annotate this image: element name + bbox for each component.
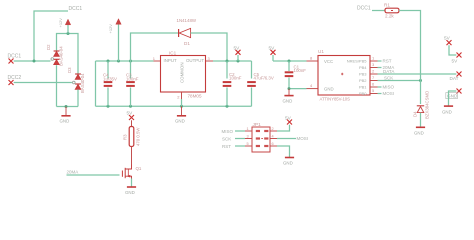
svg-text:5: 5 — [247, 142, 249, 146]
capacitor C3 — [126, 61, 139, 106]
wire JP1 MOSI — [277, 136, 308, 141]
resistor R1 — [384, 3, 399, 19]
svg-text:PB0: PB0 — [359, 91, 367, 96]
wire +12V bridge rail — [57, 32, 79, 74]
wire GND main rail — [96, 105, 252, 108]
svg-text:5V: 5V — [269, 46, 276, 51]
regulator IC1 78M05 — [153, 51, 211, 100]
resistor R3 — [123, 127, 141, 147]
pad GND right — [446, 89, 462, 99]
svg-text:BZX384CSMD: BZX384CSMD — [425, 91, 430, 119]
svg-text:IC1: IC1 — [169, 51, 177, 56]
wire MOSI — [378, 91, 395, 96]
wire D3 bottom — [77, 90, 79, 107]
svg-text:20MA: 20MA — [67, 170, 79, 175]
diode D3 (dual BAS40-04) — [67, 67, 85, 93]
svg-text:DCC2: DCC2 — [8, 75, 22, 81]
svg-text:OUTPUT: OUTPUT — [186, 58, 204, 63]
wire R3 to Q1 — [131, 147, 133, 165]
diode D2 (dual BAS40-04) — [46, 44, 64, 66]
wire MISO — [378, 85, 395, 90]
wire D2 bottom — [56, 65, 58, 106]
wire SCK — [378, 76, 423, 83]
svg-text:5V: 5V — [452, 59, 459, 64]
wire C-loop left — [95, 61, 97, 106]
pin regulator common stub — [181, 92, 183, 106]
capacitor C4 — [103, 61, 117, 106]
wire D1 branch — [131, 33, 179, 61]
svg-text:47uF/6.3V: 47uF/6.3V — [254, 76, 274, 81]
svg-text:D4: D4 — [413, 111, 418, 117]
pad 5V top right — [444, 36, 452, 46]
svg-text:MOSI: MOSI — [383, 91, 395, 96]
svg-text:6: 6 — [272, 142, 274, 146]
svg-text:3: 3 — [247, 135, 249, 139]
svg-text:GND: GND — [175, 119, 185, 124]
capacitor C1 — [285, 61, 307, 89]
svg-text:U1: U1 — [318, 49, 324, 54]
svg-text:PB1: PB1 — [359, 85, 367, 90]
svg-text:DCC1: DCC1 — [69, 6, 83, 12]
svg-text:1u/35V: 1u/35V — [103, 76, 117, 81]
pad DCC2 — [8, 75, 22, 85]
svg-text:MOSI: MOSI — [297, 136, 309, 141]
svg-text:5V: 5V — [127, 111, 134, 116]
svg-text:MISO: MISO — [222, 129, 234, 134]
svg-text:NRES/PB5: NRES/PB5 — [347, 59, 368, 64]
connector JP1 — [252, 122, 270, 152]
wire pad to R3 — [131, 120, 133, 126]
svg-text:DAT: DAT — [450, 76, 459, 81]
svg-text:470 0.5W: 470 0.5W — [136, 127, 141, 146]
svg-text:+12V: +12V — [108, 24, 113, 34]
diode D1 1N4148W — [177, 18, 197, 46]
svg-text:SCK: SCK — [384, 76, 393, 81]
ground C1 GND — [283, 89, 294, 104]
wire IC GND — [288, 87, 307, 90]
svg-text:DCC1: DCC1 — [357, 6, 371, 12]
ground D4 GND — [414, 127, 425, 136]
svg-text:PB2: PB2 — [359, 78, 367, 83]
wire DCC1 top loop — [34, 11, 68, 61]
svg-text:1: 1 — [247, 127, 249, 131]
pad DAT — [450, 72, 462, 82]
ground right GND — [442, 105, 453, 114]
wire JP1 GND — [277, 146, 290, 157]
wire DATA — [378, 69, 457, 74]
ground JP1 GND — [283, 157, 294, 166]
pad 5V b — [269, 46, 276, 62]
pin U1 VCC stub — [307, 56, 319, 62]
svg-text:100nF: 100nF — [126, 76, 139, 81]
svg-text:100nF: 100nF — [229, 76, 242, 81]
svg-text:MISO: MISO — [383, 85, 395, 90]
svg-text:D1: D1 — [184, 41, 190, 46]
svg-text:D2: D2 — [46, 44, 51, 50]
wire 20MA — [378, 65, 395, 70]
wire D4 to GND — [420, 113, 422, 127]
svg-text:5V: 5V — [234, 46, 241, 51]
svg-text:GND: GND — [283, 99, 293, 104]
wire R1 to D4 node — [399, 11, 421, 105]
pin JP1 right stubs — [270, 127, 277, 146]
svg-text:BAS40-04: BAS40-04 — [59, 46, 64, 66]
pin JP1 left stubs — [245, 127, 252, 146]
capacitor C2 — [223, 61, 242, 106]
svg-text:4: 4 — [272, 135, 274, 139]
svg-text:2.2k: 2.2k — [385, 14, 394, 19]
IC U1 ATTINY85 — [318, 49, 370, 101]
wire 5V rail 1 — [213, 60, 252, 63]
wire DCC1 — [14, 60, 51, 63]
svg-text:ATTINY85V-10S: ATTINY85V-10S — [320, 96, 351, 101]
supply +12V arrow 2 — [108, 19, 121, 61]
ground main rail GND — [175, 106, 186, 123]
wire 5V pads link — [449, 45, 456, 55]
svg-text:R1: R1 — [384, 3, 390, 8]
svg-text:GND: GND — [283, 161, 293, 166]
svg-text:100nF: 100nF — [294, 68, 307, 73]
svg-text:R3: R3 — [123, 134, 128, 140]
svg-text:RST: RST — [383, 59, 392, 64]
wire bridge bottom rail — [57, 105, 79, 108]
svg-text:INPUT: INPUT — [164, 58, 177, 63]
svg-text:DATA: DATA — [383, 69, 394, 74]
wire DCC2 — [14, 82, 72, 84]
wire JP1 5V — [277, 125, 290, 131]
svg-text:BAS40-04: BAS40-04 — [80, 73, 85, 93]
wire RST — [378, 59, 392, 64]
svg-text:Q1: Q1 — [136, 166, 142, 171]
svg-text:PB4: PB4 — [359, 65, 367, 70]
svg-text:SCK: SCK — [222, 136, 231, 141]
svg-text:RST: RST — [222, 144, 231, 149]
pad 5V right — [452, 53, 462, 64]
svg-text:2: 2 — [272, 127, 274, 131]
wire 20MA gate — [67, 170, 120, 176]
wire GND pad to ground — [449, 91, 457, 106]
svg-text:5V: 5V — [444, 36, 451, 41]
wire RST to JP1 — [222, 144, 245, 149]
wire 5V rail 2 — [273, 60, 307, 63]
svg-text:78M05: 78M05 — [188, 94, 202, 99]
svg-text:GND: GND — [125, 190, 135, 195]
wire D1 to C2 node — [191, 33, 227, 61]
pad 5V JP1 — [285, 116, 292, 125]
pin regulator output stub — [206, 60, 214, 62]
ground Q1 GND — [125, 186, 136, 195]
svg-text:GND: GND — [442, 109, 452, 114]
svg-text:D3: D3 — [67, 67, 72, 73]
svg-text:GND: GND — [324, 86, 334, 91]
diode D4 BZX384CSMD — [413, 91, 430, 119]
supply +12V arrow 1 — [58, 18, 71, 34]
svg-text:VCC: VCC — [324, 59, 333, 64]
svg-text:5V: 5V — [285, 116, 292, 121]
wire +12V top rail — [96, 60, 154, 63]
svg-text:COMMON: COMMON — [180, 63, 185, 84]
pad DCC1 — [8, 54, 22, 64]
wire MISO to JP1 — [222, 129, 246, 134]
svg-text:1N4148W: 1N4148W — [177, 18, 197, 23]
svg-text:PB3: PB3 — [359, 72, 367, 77]
capacitor C5 — [247, 61, 274, 106]
pin U1 GND stub — [307, 83, 319, 89]
svg-text:+12V: +12V — [58, 18, 63, 28]
svg-text:GND: GND — [414, 131, 424, 136]
svg-text:GND: GND — [60, 119, 70, 124]
svg-text:JP1: JP1 — [253, 122, 262, 128]
svg-text:DCC1: DCC1 — [8, 54, 22, 60]
wire DCC1 to R1 — [372, 10, 385, 12]
ground bridge GND — [60, 107, 71, 124]
wire SCK to JP1 — [222, 136, 245, 141]
transistor Q1 — [122, 165, 142, 179]
wire regulator input — [154, 60, 161, 62]
pad 5V a — [234, 46, 241, 62]
pad 5V above R3 — [127, 111, 135, 121]
pin U1 right stubs — [370, 56, 378, 94]
wire Q1 source to GND — [131, 179, 133, 187]
